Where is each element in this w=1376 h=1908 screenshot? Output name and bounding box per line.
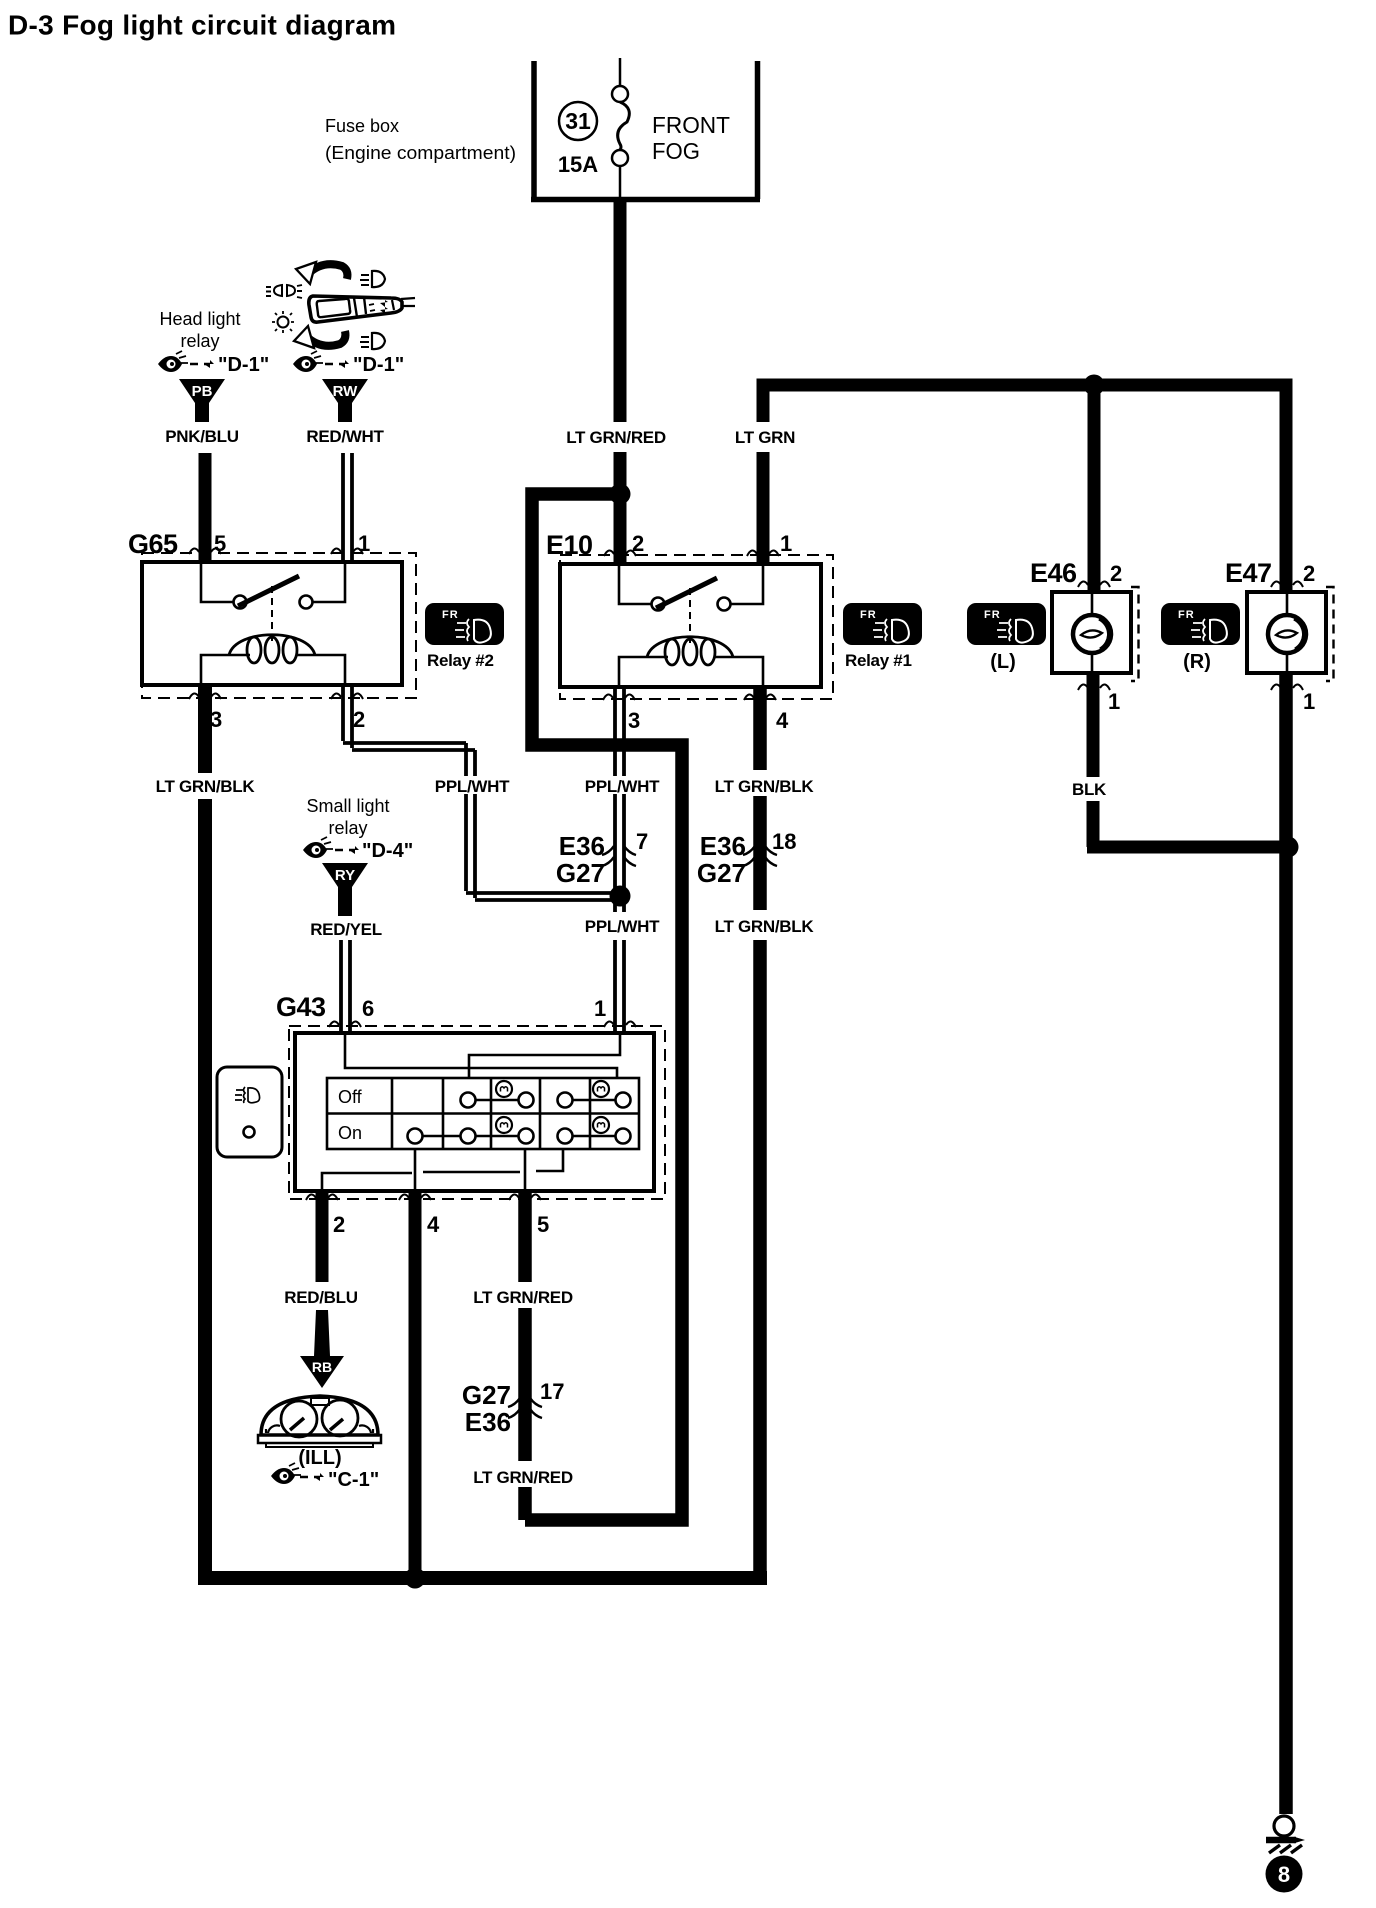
svg-text:PPL/WHT: PPL/WHT bbox=[435, 777, 510, 796]
Off row contacts bbox=[461, 1093, 631, 1108]
node junction ground wires bbox=[1278, 837, 1299, 858]
svg-text:LT GRN: LT GRN bbox=[735, 428, 795, 447]
combination switch stalk icon bbox=[266, 262, 415, 349]
wire G43 pin 5 LT GRN/RED down bbox=[518, 1191, 532, 1520]
svg-text:1: 1 bbox=[594, 996, 606, 1021]
svg-text:RED/BLU: RED/BLU bbox=[284, 1288, 357, 1307]
svg-text:18: 18 bbox=[772, 829, 796, 854]
svg-text:5: 5 bbox=[537, 1212, 549, 1237]
svg-text:E46: E46 bbox=[1030, 558, 1077, 588]
wire RED/WHT to G65 pin 1 (double line) bbox=[343, 453, 352, 562]
svg-text:6: 6 bbox=[362, 996, 374, 1021]
wire LT GRN/RED from fuse down to junction and E10 pin 2 bbox=[614, 199, 627, 564]
lamp E46 box bbox=[1052, 592, 1131, 673]
svg-text:Off: Off bbox=[338, 1087, 363, 1107]
svg-text:Relay #2: Relay #2 bbox=[427, 651, 494, 670]
FR icon for E47 bbox=[1161, 603, 1240, 645]
node junction to E46 bbox=[1084, 375, 1105, 396]
relay E10 dashed boundary bbox=[560, 555, 833, 699]
fog indicator icon box left of G43 bbox=[217, 1067, 282, 1157]
svg-text:Fuse box: Fuse box bbox=[325, 116, 399, 136]
switch G43 box bbox=[295, 1033, 654, 1191]
svg-text:On: On bbox=[338, 1123, 362, 1143]
wire BLK joining E47 ground wire bbox=[1087, 841, 1288, 854]
G43 entry marks top bbox=[329, 1021, 361, 1027]
svg-text:PB: PB bbox=[192, 383, 213, 400]
wire E10 pin 3 PPL/WHT down (double line) bbox=[615, 687, 624, 1034]
svg-text:LT GRN/RED: LT GRN/RED bbox=[566, 428, 666, 447]
connector break E36/G27 pin 18 bbox=[743, 846, 777, 866]
svg-text:E47: E47 bbox=[1225, 558, 1272, 588]
svg-text:3: 3 bbox=[628, 708, 640, 733]
E10 entry marks bbox=[604, 550, 636, 556]
svg-text:15A: 15A bbox=[558, 152, 598, 177]
svg-text:RW: RW bbox=[333, 383, 359, 400]
wire G43 pin 2 RED/BLU bbox=[316, 1191, 329, 1282]
G43 internal wiring top bbox=[345, 1033, 620, 1078]
svg-text:LT GRN/RED: LT GRN/RED bbox=[473, 1468, 573, 1487]
wire PNK/BLU to G65 pin 5 bbox=[199, 453, 212, 562]
G43 internal wiring bottom bbox=[322, 1149, 563, 1191]
wire branch left from junction bbox=[525, 494, 682, 1520]
svg-text:LT GRN/RED: LT GRN/RED bbox=[473, 1288, 573, 1307]
svg-text:1: 1 bbox=[358, 531, 370, 556]
instrument cluster icon (ILL) bbox=[258, 1396, 381, 1447]
connector funnel RW bbox=[322, 379, 368, 422]
svg-text:E36: E36 bbox=[465, 1407, 511, 1437]
svg-text:LT GRN/BLK: LT GRN/BLK bbox=[156, 777, 256, 796]
svg-text:G65: G65 bbox=[128, 529, 178, 559]
svg-text:relay: relay bbox=[328, 818, 367, 838]
svg-text:D-3 Fog light circuit diagram: D-3 Fog light circuit diagram bbox=[8, 10, 396, 41]
svg-text:(R): (R) bbox=[1183, 651, 1211, 673]
svg-text:2: 2 bbox=[353, 707, 365, 732]
svg-text:4: 4 bbox=[776, 708, 789, 733]
wire LT GRN top right feed bbox=[757, 385, 1293, 592]
eye see D-1 left bbox=[158, 351, 188, 372]
fuse 31 15A symbol bbox=[559, 58, 629, 199]
wire G65 pin 3 LT GRN/BLK down bbox=[198, 685, 212, 1578]
wire G43 pin 4 down bbox=[409, 1191, 422, 1578]
svg-text:Relay #1: Relay #1 bbox=[845, 651, 912, 670]
wire E46 pin 1 BLK down bbox=[1087, 673, 1100, 847]
svg-text:(ILL): (ILL) bbox=[298, 1447, 341, 1469]
lamp E46 bulb bbox=[1073, 615, 1111, 653]
wire E10 pin 4 LT GRN/BLK down bbox=[753, 687, 767, 1578]
E47 dashed bracket bbox=[1326, 587, 1334, 681]
switch G43 dashed boundary bbox=[289, 1026, 665, 1199]
page number badge 8 bbox=[1266, 1856, 1303, 1893]
fuse box (engine compartment) outline bbox=[531, 61, 760, 200]
E46 entry marks bbox=[1078, 581, 1110, 587]
svg-text:1: 1 bbox=[780, 531, 792, 556]
eye see D-4 bbox=[303, 837, 333, 858]
relay E10 internals bbox=[619, 564, 763, 687]
connector funnel RY bbox=[322, 863, 368, 906]
E47 entry marks bbox=[1271, 581, 1303, 587]
node junction below fuse bbox=[610, 484, 631, 505]
svg-text:G27: G27 bbox=[697, 858, 746, 888]
connector break G27/E36 pin 17 bbox=[508, 1398, 542, 1418]
svg-text:E36: E36 bbox=[700, 831, 746, 861]
svg-text:G27: G27 bbox=[462, 1380, 511, 1410]
svg-text:"C-1": "C-1" bbox=[328, 1469, 379, 1491]
svg-text:RB: RB bbox=[312, 1359, 332, 1375]
node junction PPL/WHT bbox=[610, 886, 631, 907]
wire E47 pin 1 to ground bbox=[1279, 673, 1293, 1814]
node junction at bottom wire bbox=[405, 1568, 426, 1589]
svg-text:(Engine compartment): (Engine compartment) bbox=[325, 143, 516, 163]
svg-text:LT GRN/BLK: LT GRN/BLK bbox=[715, 917, 815, 936]
svg-text:RED/WHT: RED/WHT bbox=[306, 427, 384, 446]
svg-text:G27: G27 bbox=[556, 858, 605, 888]
svg-text:E36: E36 bbox=[559, 831, 605, 861]
ground symbol bbox=[1266, 1816, 1305, 1853]
svg-text:Small light: Small light bbox=[306, 796, 389, 816]
svg-text:FOG: FOG bbox=[652, 138, 700, 164]
svg-text:2: 2 bbox=[1110, 561, 1122, 586]
arrow to instrument panel RB bbox=[300, 1310, 344, 1388]
lamp E47 box bbox=[1247, 592, 1326, 673]
svg-text:RY: RY bbox=[335, 867, 355, 884]
svg-text:(L): (L) bbox=[990, 651, 1016, 673]
relay G65 internals bbox=[201, 562, 345, 685]
svg-text:PPL/WHT: PPL/WHT bbox=[585, 917, 660, 936]
G43 entry marks bottom bbox=[306, 1194, 338, 1200]
svg-text:Head light: Head light bbox=[159, 309, 240, 329]
svg-text:1: 1 bbox=[1303, 689, 1315, 714]
svg-text:E10: E10 bbox=[546, 530, 593, 560]
svg-text:relay: relay bbox=[180, 331, 219, 351]
relay #1 icon bbox=[843, 603, 922, 645]
svg-text:8: 8 bbox=[1278, 1862, 1290, 1887]
svg-text:BLK: BLK bbox=[1072, 780, 1107, 799]
lamp E47 bulb bbox=[1268, 615, 1306, 653]
FR icon for E46 bbox=[967, 603, 1046, 645]
svg-text:G43: G43 bbox=[276, 992, 326, 1022]
relay E10 box bbox=[560, 564, 821, 687]
svg-text:31: 31 bbox=[565, 108, 591, 134]
G65 entry marks bbox=[189, 548, 221, 554]
svg-text:4: 4 bbox=[427, 1212, 440, 1237]
svg-text:2: 2 bbox=[333, 1212, 345, 1237]
On row contacts bbox=[408, 1129, 631, 1144]
relay #2 icon bbox=[425, 603, 504, 645]
eye see D-1 right bbox=[293, 351, 323, 372]
svg-text:17: 17 bbox=[540, 1379, 564, 1404]
svg-text:7: 7 bbox=[636, 829, 648, 854]
svg-text:2: 2 bbox=[1303, 561, 1315, 586]
connector funnel PB bbox=[179, 379, 225, 422]
connector break E36/G27 pin 7 bbox=[602, 846, 636, 866]
svg-text:LT GRN/BLK: LT GRN/BLK bbox=[715, 777, 815, 796]
wire G65 pin 2 PPL/WHT route (double line) bbox=[343, 685, 620, 900]
svg-text:1: 1 bbox=[1108, 689, 1120, 714]
svg-text:PPL/WHT: PPL/WHT bbox=[585, 777, 660, 796]
bottom ground bus wire bbox=[198, 1571, 767, 1585]
eye see C-1 bbox=[271, 1463, 301, 1484]
wire RED/YEL to G43 pin 6 (double line) bbox=[341, 940, 350, 1034]
svg-text:"D-1": "D-1" bbox=[218, 354, 269, 376]
relay G65 box bbox=[142, 562, 402, 685]
G43 contact table bbox=[327, 1078, 639, 1149]
svg-text:"D-4": "D-4" bbox=[362, 840, 413, 862]
svg-text:"D-1": "D-1" bbox=[353, 354, 404, 376]
svg-text:FRONT: FRONT bbox=[652, 112, 730, 138]
svg-text:PNK/BLU: PNK/BLU bbox=[165, 427, 238, 446]
relay G65 dashed boundary bbox=[142, 553, 416, 698]
E46 dashed bracket bbox=[1131, 587, 1139, 681]
svg-text:RED/YEL: RED/YEL bbox=[310, 920, 382, 939]
